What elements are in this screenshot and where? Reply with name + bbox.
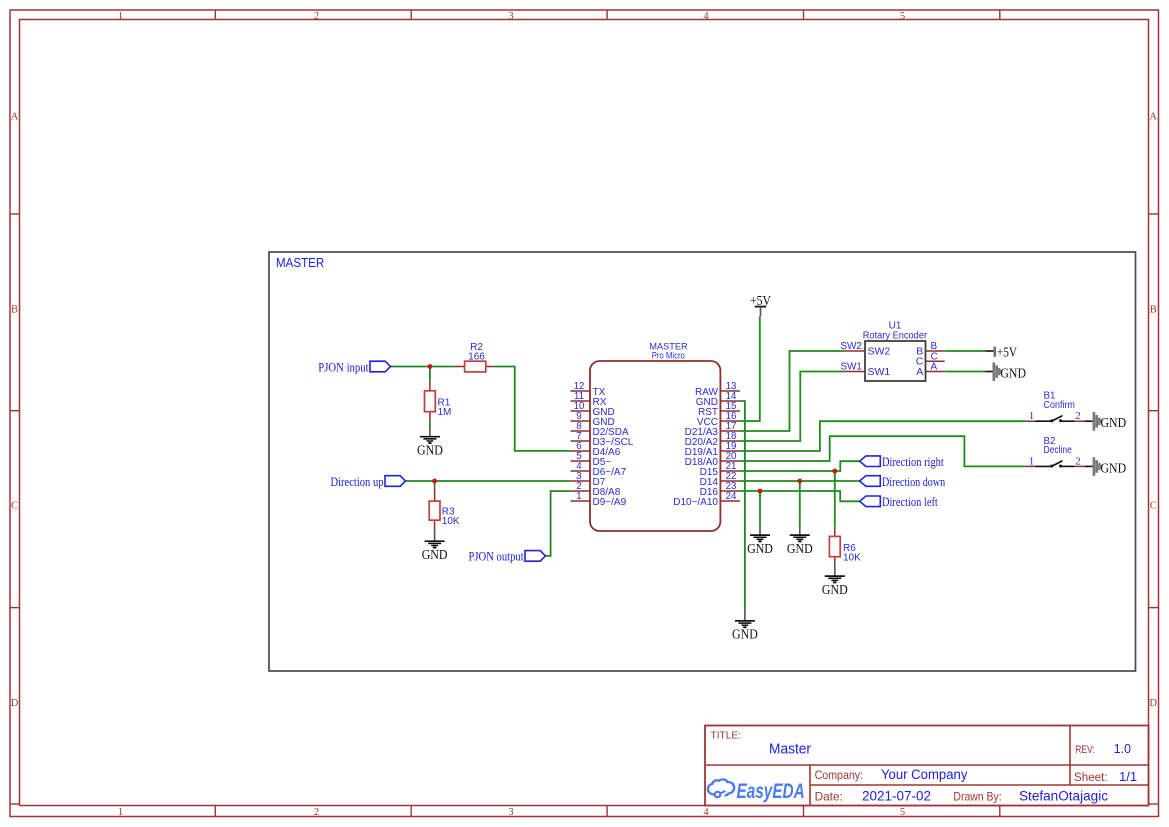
wire Direction up node to R3	[434, 481, 436, 486]
EasyEDA logo	[708, 779, 805, 803]
svg-text:C: C	[11, 501, 18, 512]
U2 pin 24 D10~/A10	[673, 491, 740, 508]
U1 pin SW1	[840, 362, 890, 378]
svg-text:D: D	[11, 698, 19, 709]
svg-text:D9~/A9: D9~/A9	[593, 497, 627, 508]
svg-text:REV:: REV:	[1075, 744, 1095, 756]
svg-text:PJON input: PJON input	[318, 360, 369, 374]
ground GND below R6	[822, 566, 848, 596]
svg-text:Your Company: Your Company	[881, 767, 968, 782]
resistor R1 1M vertical	[425, 381, 452, 422]
U2 pin 5 D5~	[571, 451, 612, 468]
resistor R6 10K vertical	[829, 527, 861, 567]
U2 pin 6 D4/A6	[571, 441, 621, 458]
wire PJON input to R2	[390, 366, 454, 368]
wire D15 node to R6	[834, 471, 836, 527]
ground GND (right of U1 pin A)	[985, 362, 1026, 381]
U2 pin 8 D2/SDA	[571, 421, 629, 438]
svg-text:GND: GND	[1101, 460, 1127, 475]
wire R3 to ground	[434, 529, 436, 531]
ground GND at B2	[1094, 457, 1126, 476]
svg-text:+5V: +5V	[750, 293, 771, 308]
svg-text:1M: 1M	[438, 407, 452, 418]
svg-text:1/1: 1/1	[1119, 769, 1137, 784]
ground GND below R1	[417, 427, 443, 457]
U2 pin 3 D7	[571, 471, 606, 488]
svg-text:SW2: SW2	[868, 345, 891, 357]
svg-text:10K: 10K	[442, 516, 460, 527]
net flag Direction down	[860, 475, 946, 489]
U1 pin C	[916, 351, 945, 367]
svg-text:C: C	[1150, 501, 1157, 512]
pushbutton B2 Decline	[1025, 436, 1093, 468]
U2 pin 9 GND	[571, 411, 615, 428]
svg-text:4: 4	[703, 11, 709, 22]
svg-text:Confirm: Confirm	[1044, 400, 1075, 411]
svg-text:D10~/A10: D10~/A10	[673, 497, 718, 508]
power +5V (top, net of U2 VCC)	[750, 293, 771, 317]
svg-text:A: A	[931, 362, 938, 373]
svg-text:Company:: Company:	[815, 768, 864, 782]
svg-text:GND: GND	[1101, 415, 1127, 430]
svg-text:1: 1	[118, 807, 123, 818]
U2 pin 13 RAW	[695, 381, 740, 398]
wire U1 A to GND	[945, 371, 986, 373]
ground GND at B1	[1094, 412, 1126, 431]
svg-text:B: B	[1150, 305, 1157, 316]
svg-text:Direction right: Direction right	[882, 455, 944, 469]
svg-text:Drawn By:: Drawn By:	[953, 789, 1001, 803]
svg-text:2021-07-02: 2021-07-02	[862, 789, 931, 804]
svg-text:1: 1	[576, 491, 581, 502]
net flag Direction right	[860, 455, 945, 469]
U2 pin 21 D15	[700, 461, 740, 478]
svg-text:2: 2	[1075, 455, 1081, 467]
U2 pin 11 RX	[571, 391, 607, 408]
ground GND below R3	[422, 532, 448, 562]
wire PJON input node to R1	[429, 367, 431, 382]
svg-text:GND: GND	[747, 541, 773, 556]
ground GND of U2 pin 14	[732, 611, 758, 641]
pushbutton B1 Confirm	[1025, 391, 1093, 423]
wire R1 to ground	[429, 422, 431, 427]
U1 pin SW2	[840, 341, 890, 357]
wire U2 pin 22 D14 to Direction down	[740, 480, 860, 482]
svg-text:GND: GND	[417, 442, 443, 457]
svg-text:MASTER: MASTER	[276, 255, 324, 270]
U2 pin 19 D19/A1	[685, 441, 740, 458]
svg-text:3: 3	[508, 11, 513, 22]
wire D16 node to ground	[759, 491, 761, 525]
svg-text:Direction up: Direction up	[331, 475, 384, 489]
wire PJON output to U2 pin 2 D8/A8	[545, 491, 570, 556]
svg-text:1: 1	[1029, 455, 1035, 467]
U2 pin 4 D6~/A7	[571, 461, 627, 478]
rotary encoder U1 body	[863, 321, 928, 381]
wire R2 to U2 pin 6 D4/A6	[494, 367, 571, 451]
U2 pin 22 D14	[700, 471, 740, 488]
ground GND of D16 net	[747, 525, 773, 555]
svg-text:2: 2	[314, 11, 319, 22]
svg-text:Direction down: Direction down	[882, 475, 945, 489]
title block	[705, 726, 1149, 806]
wire U2 pin 16 VCC to +5V	[740, 316, 760, 421]
wire U1 B to +5V	[945, 350, 986, 352]
svg-text:GND: GND	[1000, 365, 1026, 380]
svg-text:B: B	[11, 305, 18, 316]
svg-text:1: 1	[118, 11, 123, 22]
svg-text:5: 5	[900, 807, 905, 818]
svg-text:EasyEDA: EasyEDA	[737, 779, 805, 803]
U2 pin 12 TX	[571, 381, 606, 398]
svg-text:166: 166	[468, 352, 485, 363]
wire U2 pin 14 GND to ground	[740, 401, 745, 611]
svg-text:2: 2	[1075, 410, 1081, 422]
resistor R3 10K vertical	[429, 486, 460, 529]
power +5V (right of U1 pin B)	[985, 344, 1017, 359]
svg-text:Decline: Decline	[1044, 445, 1072, 456]
svg-text:5: 5	[900, 11, 905, 22]
svg-text:A: A	[11, 111, 19, 122]
U2 pin 17 D21/A3	[685, 421, 740, 438]
U2 pin 16 VCC	[697, 411, 740, 428]
U1 pin B	[916, 341, 944, 357]
svg-text:10K: 10K	[843, 553, 861, 564]
svg-text:A: A	[916, 366, 923, 378]
net flag Direction left	[860, 495, 939, 509]
junction Direction up / R3	[432, 479, 437, 484]
IC U2 MASTER Pro Micro body	[590, 341, 720, 531]
svg-text:PJON output: PJON output	[469, 550, 525, 564]
svg-text:3: 3	[508, 807, 513, 818]
schematic frame MASTER	[269, 252, 1136, 671]
wire U2 pin 19 to B1	[740, 421, 1025, 451]
ground GND of D14 net	[787, 525, 813, 555]
wire Direction up to U2 pin 3 D7	[406, 480, 571, 482]
svg-text:Direction left: Direction left	[882, 495, 938, 509]
net flag PJON output	[469, 550, 546, 564]
svg-text:1: 1	[1029, 410, 1035, 422]
resistor R2 166 horizontal	[455, 342, 494, 372]
svg-text:GND: GND	[822, 582, 848, 597]
U2 pin 14 GND	[696, 391, 740, 408]
svg-text:2: 2	[314, 807, 319, 818]
svg-text:StefanOtajagic: StefanOtajagic	[1019, 789, 1108, 804]
junction PJON input / R1	[428, 364, 433, 369]
U2 pin 1 D9~/A9	[571, 491, 627, 508]
U2 pin 20 D18/A0	[685, 451, 740, 468]
junction D14 / GND	[797, 479, 802, 484]
svg-text:+5V: +5V	[997, 344, 1017, 359]
svg-text:Rotary Encoder: Rotary Encoder	[863, 331, 928, 342]
svg-text:4: 4	[703, 807, 709, 818]
U2 pin 7 D3~/SCL	[571, 431, 634, 448]
svg-text:Sheet:: Sheet:	[1074, 772, 1108, 784]
U1 pin A	[916, 362, 944, 378]
net flag PJON input	[318, 360, 390, 374]
svg-text:GND: GND	[422, 547, 448, 562]
svg-text:D: D	[1149, 698, 1157, 709]
svg-text:SW1: SW1	[868, 366, 891, 378]
U2 pin 10 GND	[571, 401, 615, 418]
wire U2 pin 23 D16 to Direction left	[740, 491, 860, 501]
svg-text:1.0: 1.0	[1114, 741, 1131, 756]
wire U2 pin 18 to U1 SW1	[740, 372, 845, 442]
wire U2 pin 21 D15 to Direction right	[740, 461, 860, 471]
svg-text:Date:: Date:	[815, 789, 843, 803]
svg-text:24: 24	[726, 491, 737, 502]
net flag Direction up	[331, 475, 406, 489]
junction D16 / GND	[758, 489, 763, 494]
svg-text:GND: GND	[732, 627, 758, 642]
wire U2 pin 17 to U1 SW2	[740, 351, 845, 431]
U2 pin 18 D20/A2	[685, 431, 740, 448]
wire D14 node to ground	[799, 481, 801, 525]
U2 pin 23 D16	[700, 481, 740, 498]
svg-text:Pro Micro: Pro Micro	[652, 350, 685, 360]
svg-text:GND: GND	[787, 541, 813, 556]
svg-text:TITLE:: TITLE:	[711, 730, 742, 741]
junction D15 / R6	[832, 469, 837, 474]
svg-text:Master: Master	[769, 742, 811, 758]
wire U2 pin 20 to B2	[740, 436, 1025, 466]
U2 pin 2 D8/A8	[571, 481, 621, 498]
U2 pin 15 RST	[698, 401, 740, 418]
svg-text:A: A	[1149, 111, 1157, 122]
